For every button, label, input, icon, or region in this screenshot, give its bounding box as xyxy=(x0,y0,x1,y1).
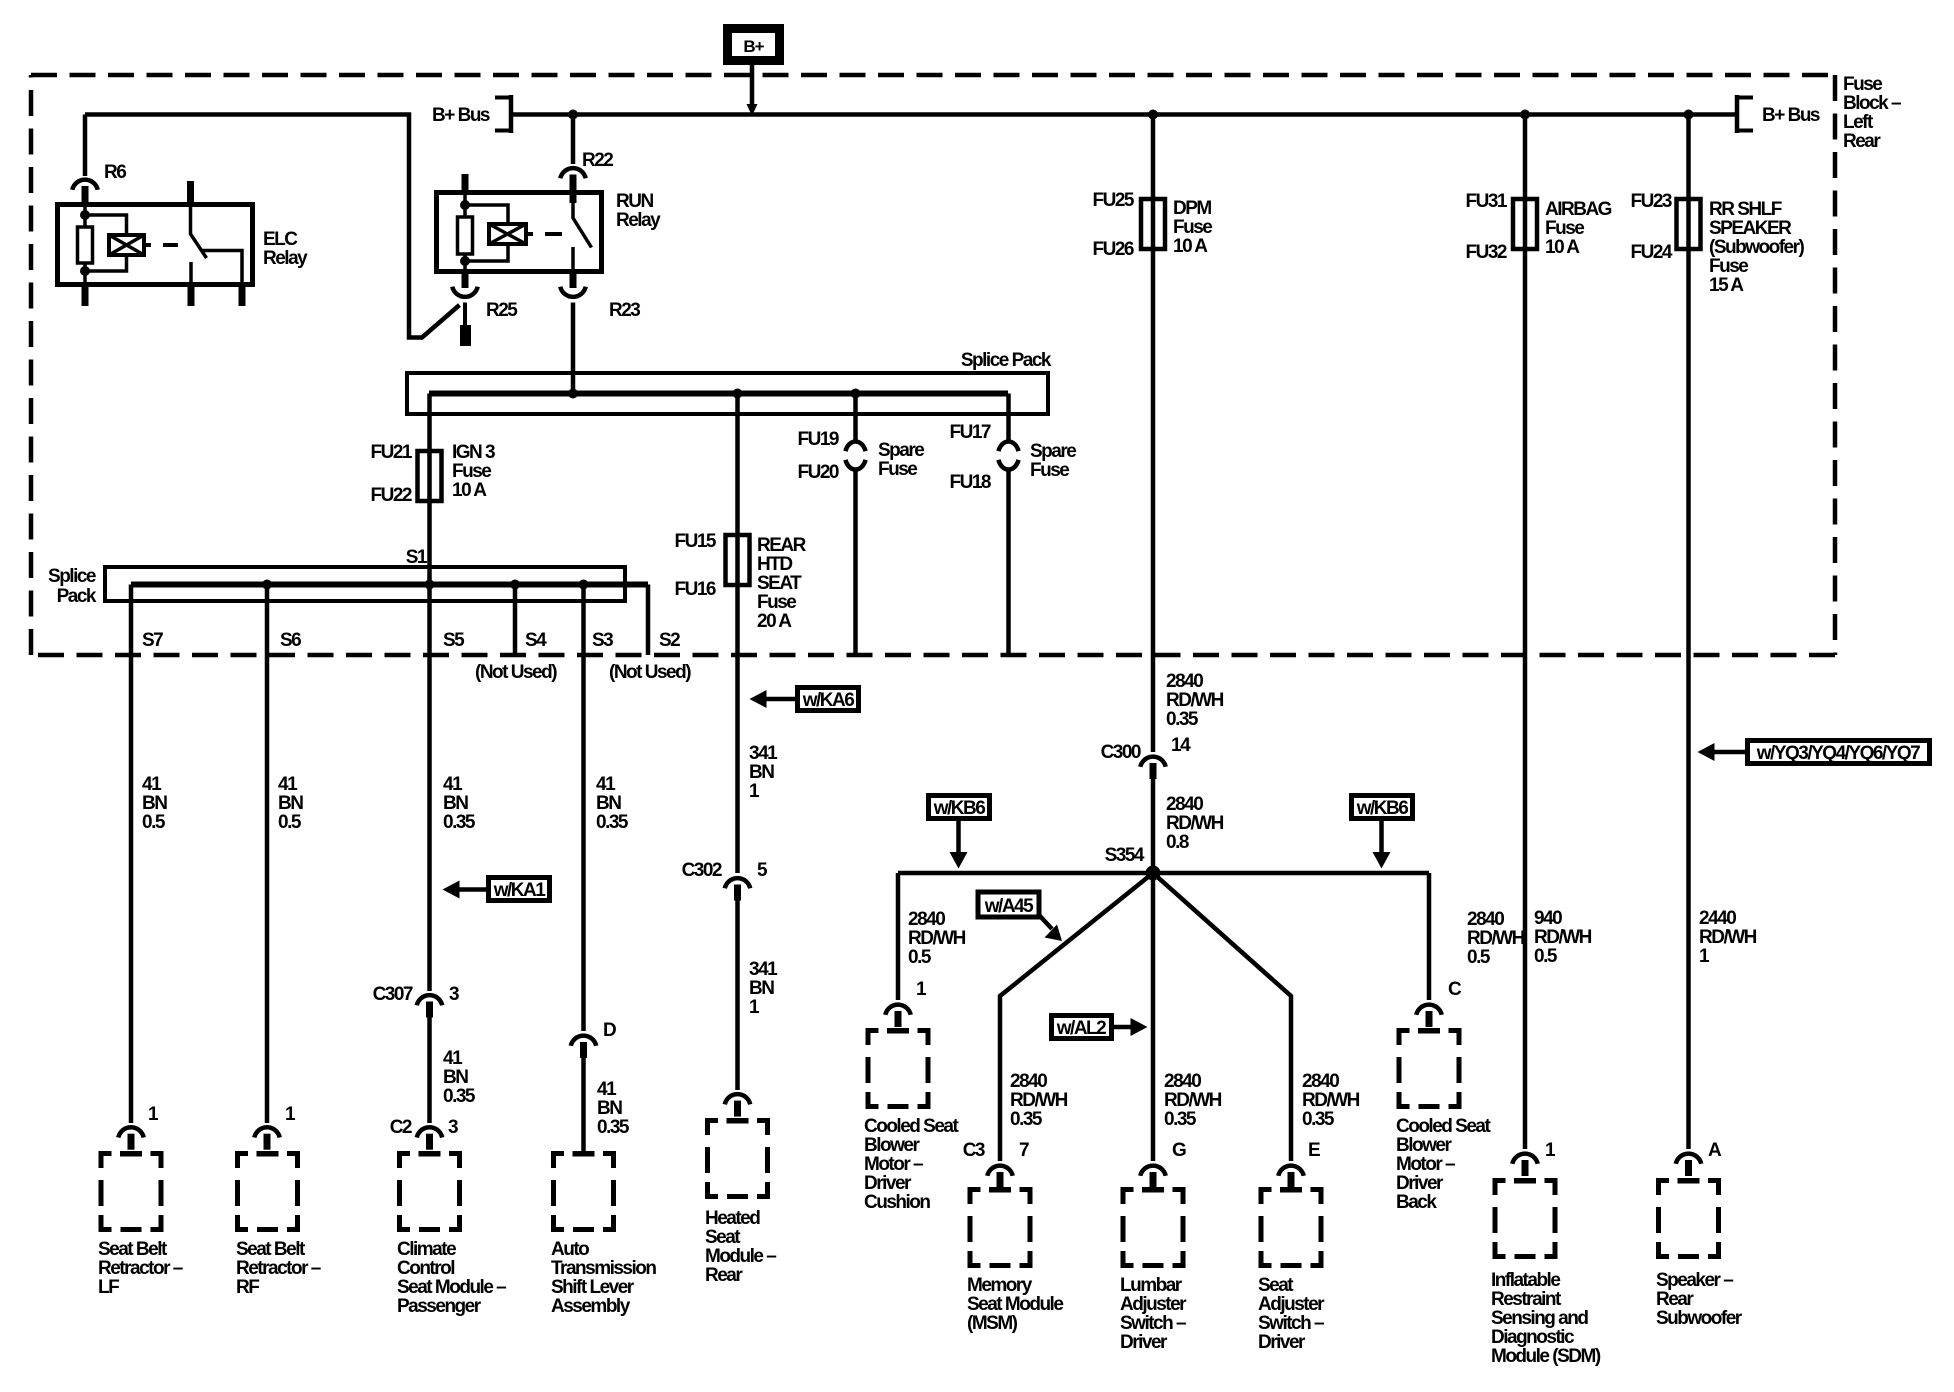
component box Auto Transmission Shift Lever Assembly xyxy=(554,1151,614,1230)
svg-text:(Not Used): (Not Used) xyxy=(475,662,557,683)
svg-text:Fuse: Fuse xyxy=(1843,74,1882,95)
svg-text:S3: S3 xyxy=(592,630,613,651)
svg-text:0.5: 0.5 xyxy=(142,812,166,833)
component box Speaker - Rear Subwoofer xyxy=(1659,1178,1719,1257)
connector R25 xyxy=(452,287,477,297)
svg-text:S6: S6 xyxy=(280,630,301,651)
svg-text:FU15: FU15 xyxy=(675,531,717,552)
component box Inflatable Restraint SDM xyxy=(1495,1178,1555,1257)
svg-text:Blower: Blower xyxy=(1396,1135,1452,1156)
wire S4 stub (Not Used) xyxy=(513,585,518,656)
svg-text:RD/WH: RD/WH xyxy=(1699,927,1757,948)
svg-text:R22: R22 xyxy=(582,150,613,171)
component box Heated Seat Module - Rear xyxy=(708,1118,768,1197)
svg-text:Climate: Climate xyxy=(397,1239,456,1260)
junction dot splice/FU19 xyxy=(851,389,861,399)
svg-text:w/KA6: w/KA6 xyxy=(802,690,855,711)
connector Heated Seat Module xyxy=(725,1094,750,1116)
svg-text:Rear: Rear xyxy=(1843,131,1881,152)
fuse block dashed border (Fuse Block - Left Rear) xyxy=(31,73,1835,78)
component box Lumbar Adjuster Switch - Driver xyxy=(1123,1187,1183,1266)
component box Seat Belt Retractor - RF xyxy=(238,1151,298,1230)
svg-text:Control: Control xyxy=(397,1258,454,1279)
junction dot RUN coil top xyxy=(460,200,470,210)
svg-text:0.35: 0.35 xyxy=(1302,1109,1335,1130)
RUN switch xyxy=(573,192,592,274)
svg-text:Left: Left xyxy=(1843,112,1874,133)
svg-text:BN: BN xyxy=(749,762,774,783)
svg-text:FU16: FU16 xyxy=(675,579,716,600)
svg-text:41: 41 xyxy=(597,1079,617,1100)
wire S7 drop 41 BN 0.5 xyxy=(129,585,134,1124)
svg-text:FU20: FU20 xyxy=(798,462,839,483)
svg-text:41: 41 xyxy=(142,774,162,795)
svg-text:Memory: Memory xyxy=(967,1275,1033,1296)
svg-text:Retractor –: Retractor – xyxy=(98,1258,183,1279)
connector C2 pin 3 xyxy=(417,1127,442,1149)
svg-text:BN: BN xyxy=(443,1067,468,1088)
harness arrow w/AL2 xyxy=(1052,1016,1112,1039)
svg-text:Shift Lever: Shift Lever xyxy=(551,1277,635,1298)
fuse FU23/FU24 RR SHLF SPEAKER Fuse 15 A xyxy=(1677,199,1701,249)
svg-text:10 A: 10 A xyxy=(1173,236,1208,257)
svg-text:FU19: FU19 xyxy=(798,429,839,450)
svg-text:Splice Pack: Splice Pack xyxy=(961,350,1052,371)
svg-text:LF: LF xyxy=(98,1277,119,1298)
svg-text:RD/WH: RD/WH xyxy=(1166,813,1224,834)
svg-text:2840: 2840 xyxy=(1164,1071,1201,1092)
svg-text:Fuse: Fuse xyxy=(1030,460,1069,481)
svg-text:0.35: 0.35 xyxy=(443,812,476,833)
svg-text:2440: 2440 xyxy=(1699,908,1736,929)
svg-text:0.35: 0.35 xyxy=(443,1086,476,1107)
wire C300 to S354 2840 RD/WH 0.8 xyxy=(1151,779,1156,873)
svg-text:20 A: 20 A xyxy=(757,611,792,632)
component box Memory Seat Module (MSM) xyxy=(970,1187,1030,1266)
junction dot bus/R22 xyxy=(568,110,578,120)
harness arrow w/KB6 left xyxy=(929,796,990,819)
svg-text:RF: RF xyxy=(236,1277,259,1298)
svg-text:Seat: Seat xyxy=(1258,1275,1294,1296)
connector A speaker xyxy=(1676,1154,1701,1176)
wire FU19 drop xyxy=(853,394,858,656)
svg-text:41: 41 xyxy=(596,774,616,795)
svg-text:Diagnostic: Diagnostic xyxy=(1491,1327,1575,1348)
relay ELC Relay xyxy=(58,205,253,285)
wire FU21 drop to splice S1 xyxy=(427,394,432,585)
connector R22 xyxy=(560,168,585,190)
svg-text:Seat Module –: Seat Module – xyxy=(397,1277,506,1298)
svg-text:Fuse: Fuse xyxy=(452,461,491,482)
svg-text:Heated: Heated xyxy=(705,1208,760,1229)
svg-text:2840: 2840 xyxy=(908,909,945,930)
svg-text:FU17: FU17 xyxy=(950,422,991,443)
svg-text:RUN: RUN xyxy=(616,191,653,212)
harness arrow w/KA6 xyxy=(798,688,859,711)
connector R6 xyxy=(72,180,97,202)
wire C302 to heated seat 341 BN 1 xyxy=(735,900,740,1090)
connector E xyxy=(1278,1166,1303,1188)
fuse FU21/FU22 IGN 3 Fuse 10 A xyxy=(418,451,442,501)
fuse FU15/FU16 REAR HTD SEAT Fuse 20 A xyxy=(726,535,750,585)
B+ terminal box xyxy=(728,29,780,61)
svg-text:3: 3 xyxy=(449,984,459,1005)
connector G xyxy=(1140,1166,1165,1188)
svg-text:FU25: FU25 xyxy=(1093,190,1135,211)
component box Seat Belt Retractor - LF xyxy=(101,1151,161,1230)
svg-text:FU21: FU21 xyxy=(371,442,413,463)
svg-text:BN: BN xyxy=(142,793,167,814)
svg-text:(Subwoofer): (Subwoofer) xyxy=(1709,237,1804,258)
svg-text:Splice: Splice xyxy=(48,566,96,587)
svg-text:Switch –: Switch – xyxy=(1258,1313,1324,1334)
svg-text:0.35: 0.35 xyxy=(596,812,629,833)
RUN pin top-right (R22) xyxy=(570,188,577,203)
svg-text:FU26: FU26 xyxy=(1093,239,1134,260)
svg-text:FU23: FU23 xyxy=(1631,191,1672,212)
svg-text:Passenger: Passenger xyxy=(397,1296,482,1317)
svg-text:BN: BN xyxy=(596,793,621,814)
component box Cooled Seat Blower Motor - Driver Back xyxy=(1399,1028,1459,1107)
svg-text:0.35: 0.35 xyxy=(1010,1109,1043,1130)
svg-text:341: 341 xyxy=(749,959,778,980)
svg-text:REAR: REAR xyxy=(757,535,807,556)
svg-text:Fuse: Fuse xyxy=(757,592,796,613)
svg-text:Relay: Relay xyxy=(263,248,308,269)
svg-text:Cooled Seat: Cooled Seat xyxy=(1396,1116,1491,1137)
svg-text:RR SHLF: RR SHLF xyxy=(1709,199,1782,220)
svg-text:S5: S5 xyxy=(443,630,465,651)
junction dot ELC coil bottom xyxy=(80,266,90,276)
svg-text:IGN 3: IGN 3 xyxy=(452,442,495,463)
ELC coil resistor xyxy=(78,227,93,263)
svg-text:Lumbar: Lumbar xyxy=(1120,1275,1183,1296)
svg-text:Cushion: Cushion xyxy=(864,1192,930,1213)
svg-text:w/YQ3/YQ4/YQ6/YQ7: w/YQ3/YQ4/YQ6/YQ7 xyxy=(1756,743,1920,764)
ELC pin bottom-center xyxy=(188,286,195,306)
svg-text:w/AL2: w/AL2 xyxy=(1056,1018,1106,1039)
svg-text:Back: Back xyxy=(1396,1192,1437,1213)
svg-text:Inflatable: Inflatable xyxy=(1491,1270,1560,1291)
splice S354 xyxy=(1146,866,1161,881)
svg-text:Switch –: Switch – xyxy=(1120,1313,1186,1334)
svg-text:Spare: Spare xyxy=(1030,441,1076,462)
junction dot bus/FU25 xyxy=(1148,110,1158,120)
wire S3 drop 41 BN 0.35 xyxy=(581,585,586,1032)
svg-text:10 A: 10 A xyxy=(452,480,487,501)
svg-text:Restraint: Restraint xyxy=(1491,1289,1562,1310)
RUN coil branch wire xyxy=(463,192,467,274)
wire S354 to G 2840 RD/WH 0.35 xyxy=(1151,873,1156,1161)
svg-text:SEAT: SEAT xyxy=(757,573,802,594)
svg-text:Module –: Module – xyxy=(705,1246,776,1267)
wire S354 diagonal to E 2840 RD/WH 0.35 xyxy=(1153,873,1291,1161)
svg-text:41: 41 xyxy=(278,774,298,795)
svg-text:HTD: HTD xyxy=(757,554,792,575)
svg-text:Rear: Rear xyxy=(1656,1289,1694,1310)
wire S354 diagonal to C3 xyxy=(1000,873,1153,1161)
ELC coil branch wire xyxy=(83,204,87,287)
RUN pin bottom-left (R25) xyxy=(462,274,469,288)
component box Cooled Seat Blower Motor - Driver Cushion xyxy=(868,1028,928,1107)
RUN pin bottom-right (R23) xyxy=(570,274,577,288)
svg-text:Seat Module: Seat Module xyxy=(967,1294,1063,1315)
svg-text:(Not Used): (Not Used) xyxy=(609,662,691,683)
svg-text:SPEAKER: SPEAKER xyxy=(1709,218,1792,239)
harness arrow w/KA1 xyxy=(489,878,550,901)
svg-text:S4: S4 xyxy=(525,630,547,651)
svg-text:C302: C302 xyxy=(682,860,722,881)
connector C307 pin 3 xyxy=(417,995,442,1017)
svg-text:C2: C2 xyxy=(390,1117,412,1138)
svg-text:Sensing and: Sensing and xyxy=(1491,1308,1588,1329)
junction dot ELC coil top xyxy=(80,210,90,220)
junction dot S4 xyxy=(510,580,520,590)
svg-text:Fuse: Fuse xyxy=(1173,217,1212,238)
svg-text:B+ Bus: B+ Bus xyxy=(1762,105,1820,126)
component box Climate Control Seat Module - Passenger xyxy=(400,1151,460,1230)
svg-text:0.5: 0.5 xyxy=(278,812,302,833)
ELC pin top-right xyxy=(187,181,194,203)
svg-text:E: E xyxy=(1308,1140,1320,1161)
svg-text:0.5: 0.5 xyxy=(1534,946,1558,967)
svg-text:Seat Belt: Seat Belt xyxy=(236,1239,306,1260)
svg-text:940: 940 xyxy=(1534,908,1562,929)
junction dot bus/FU23 xyxy=(1684,110,1694,120)
svg-text:2840: 2840 xyxy=(1166,794,1203,815)
ELC solenoid branch wire xyxy=(85,215,127,271)
svg-text:DPM: DPM xyxy=(1173,198,1211,219)
RUN solenoid branch wire xyxy=(465,205,508,261)
splice pack upper (bus bar) xyxy=(407,373,1048,414)
svg-text:Fuse: Fuse xyxy=(878,459,917,480)
svg-text:Pack: Pack xyxy=(57,586,97,607)
svg-text:14: 14 xyxy=(1171,735,1191,756)
svg-text:ELC: ELC xyxy=(263,229,298,250)
svg-text:B+ Bus: B+ Bus xyxy=(432,105,490,126)
wire ELC feed from R25 xyxy=(85,115,460,338)
ELC solenoid (crossed box) xyxy=(109,235,144,255)
svg-text:Motor –: Motor – xyxy=(1396,1154,1455,1175)
svg-text:0.35: 0.35 xyxy=(597,1117,630,1138)
svg-text:41: 41 xyxy=(443,774,463,795)
svg-text:3: 3 xyxy=(448,1117,458,1138)
RUN actuator dashed link xyxy=(526,232,562,236)
harness arrow w/YQ3/YQ4/YQ6/YQ7 xyxy=(1748,741,1930,764)
spare fuse FU19/FU20 xyxy=(846,441,866,469)
svg-text:BN: BN xyxy=(443,793,468,814)
fuse FU31/FU32 AIRBAG Fuse 10 A xyxy=(1513,199,1537,249)
svg-text:C3: C3 xyxy=(963,1140,985,1161)
harness arrow w/KB6 right xyxy=(1352,796,1413,819)
junction dot S5 xyxy=(425,580,435,590)
svg-text:RD/WH: RD/WH xyxy=(1010,1090,1068,1111)
svg-text:RD/WH: RD/WH xyxy=(1302,1090,1360,1111)
svg-text:AIRBAG: AIRBAG xyxy=(1545,199,1612,220)
svg-text:S1: S1 xyxy=(406,547,428,568)
svg-text:Assembly: Assembly xyxy=(551,1296,631,1317)
svg-text:BN: BN xyxy=(278,793,303,814)
svg-text:Fuse: Fuse xyxy=(1545,218,1584,239)
connector C300 pin 14 xyxy=(1140,757,1165,779)
svg-text:0.35: 0.35 xyxy=(1164,1109,1197,1130)
svg-text:0.8: 0.8 xyxy=(1166,832,1189,853)
svg-text:Fuse: Fuse xyxy=(1709,256,1748,277)
ELC pin top-left xyxy=(82,188,89,203)
splice pack lower (bus bar) xyxy=(105,567,625,601)
wire S354 horizontal xyxy=(898,871,1429,876)
wire D to box 41 BN 0.35 xyxy=(581,1058,586,1151)
svg-text:G: G xyxy=(1172,1140,1186,1161)
wire R23 to splice pack xyxy=(571,303,576,394)
connector pin 1 cushion blower xyxy=(885,1005,910,1027)
connector pin 1 Seat Belt Retractor LF xyxy=(118,1127,143,1149)
svg-text:BN: BN xyxy=(749,978,774,999)
svg-text:RD/WH: RD/WH xyxy=(1534,927,1592,948)
svg-text:2840: 2840 xyxy=(1467,909,1504,930)
svg-text:Driver: Driver xyxy=(1258,1332,1306,1353)
RUN coil resistor xyxy=(458,217,473,254)
svg-text:FU31: FU31 xyxy=(1466,191,1508,212)
svg-text:15 A: 15 A xyxy=(1709,275,1744,296)
svg-text:BN: BN xyxy=(597,1098,622,1119)
svg-text:C: C xyxy=(1448,979,1462,1000)
wire R6 drop xyxy=(83,115,88,177)
svg-text:Motor –: Motor – xyxy=(864,1154,923,1175)
svg-text:R23: R23 xyxy=(609,300,640,321)
connector C back blower xyxy=(1416,1005,1441,1027)
connector C3 pin 7 xyxy=(987,1166,1012,1188)
wire S354 to back blower 2840 RD/WH 0.5 xyxy=(1427,873,1432,1000)
wire FU17 drop xyxy=(1006,394,1011,656)
svg-text:B+: B+ xyxy=(743,37,764,56)
wire C307 to C2 41 BN 0.35 xyxy=(427,1017,432,1123)
svg-text:Rear: Rear xyxy=(705,1265,743,1286)
svg-text:Blower: Blower xyxy=(864,1135,920,1156)
wire S354 to cushion blower 2840 RD/WH 0.5 xyxy=(896,873,901,1000)
junction dot S6 xyxy=(262,580,272,590)
wire R22 drop xyxy=(571,115,576,165)
svg-text:FU22: FU22 xyxy=(371,485,412,506)
spare fuse FU17/FU18 xyxy=(999,441,1019,469)
junction dot S3 xyxy=(579,580,589,590)
connector C302 pin 5 xyxy=(725,878,750,900)
svg-text:2840: 2840 xyxy=(1302,1071,1339,1092)
svg-text:0.5: 0.5 xyxy=(1467,947,1491,968)
svg-text:FU32: FU32 xyxy=(1466,242,1507,263)
svg-text:Relay: Relay xyxy=(616,210,661,231)
svg-text:Driver: Driver xyxy=(864,1173,912,1194)
svg-text:(MSM): (MSM) xyxy=(967,1313,1018,1334)
svg-text:w/KB6: w/KB6 xyxy=(933,798,986,819)
svg-text:Seat: Seat xyxy=(705,1227,741,1248)
connector D xyxy=(571,1036,596,1058)
svg-text:RD/WH: RD/WH xyxy=(908,928,966,949)
svg-text:FU18: FU18 xyxy=(950,472,991,493)
wire FU15 drop xyxy=(735,394,740,874)
junction dot bus/FU31 xyxy=(1520,110,1530,120)
svg-text:Subwoofer: Subwoofer xyxy=(1656,1308,1743,1329)
fuse FU25/FU26 DPM Fuse 10 A xyxy=(1141,199,1165,249)
svg-text:Driver: Driver xyxy=(1396,1173,1444,1194)
svg-text:D: D xyxy=(603,1020,616,1041)
svg-text:FU24: FU24 xyxy=(1631,242,1673,263)
svg-text:Auto: Auto xyxy=(551,1239,589,1260)
svg-text:Cooled Seat: Cooled Seat xyxy=(864,1116,959,1137)
svg-text:R25: R25 xyxy=(486,300,518,321)
connector R23 xyxy=(560,287,585,297)
svg-text:R6: R6 xyxy=(104,162,126,183)
svg-text:C300: C300 xyxy=(1101,742,1141,763)
svg-text:7: 7 xyxy=(1019,1140,1029,1161)
svg-text:Speaker –: Speaker – xyxy=(1656,1270,1733,1291)
svg-text:2840: 2840 xyxy=(1166,671,1203,692)
svg-text:Transmission: Transmission xyxy=(551,1258,656,1279)
ELC actuator dashed link xyxy=(144,243,178,247)
ELC pin bottom-left xyxy=(82,286,89,306)
wire S5 drop 41 BN 0.35 xyxy=(427,585,432,992)
svg-text:0.35: 0.35 xyxy=(1166,709,1199,730)
svg-text:Seat Belt: Seat Belt xyxy=(98,1239,168,1260)
relay RUN Relay xyxy=(437,193,602,272)
wire AIRBAG feed 940 RD/WH 0.5 xyxy=(1523,115,1528,1150)
RUN solenoid (crossed box) xyxy=(489,224,526,244)
svg-text:RD/WH: RD/WH xyxy=(1164,1090,1222,1111)
svg-text:2840: 2840 xyxy=(1010,1071,1047,1092)
wire S2 stub (Not Used) xyxy=(646,585,651,656)
svg-text:Adjuster: Adjuster xyxy=(1120,1294,1187,1315)
svg-text:RD/WH: RD/WH xyxy=(1166,690,1224,711)
component box Seat Adjuster Switch - Driver xyxy=(1261,1187,1321,1266)
ELC switch xyxy=(191,204,207,287)
node B+ Bus bracket left xyxy=(509,95,514,133)
svg-text:Block –: Block – xyxy=(1843,93,1901,114)
connector pin 1 SDM xyxy=(1512,1154,1537,1176)
svg-text:S2: S2 xyxy=(659,630,680,651)
svg-text:Retractor –: Retractor – xyxy=(236,1258,321,1279)
ELC pin bottom-right xyxy=(239,286,246,306)
wire DPM feed xyxy=(1151,115,1156,753)
svg-text:w/KB6: w/KB6 xyxy=(1356,798,1409,819)
R25 terminal stub xyxy=(463,303,467,327)
junction dot splice/FU15 xyxy=(733,389,743,399)
svg-text:0.5: 0.5 xyxy=(908,947,932,968)
svg-text:Driver: Driver xyxy=(1120,1332,1168,1353)
svg-text:341: 341 xyxy=(749,743,778,764)
svg-text:w/A45: w/A45 xyxy=(984,896,1034,917)
svg-text:A: A xyxy=(1708,1140,1722,1161)
wire RR SHLF feed 2440 RD/WH 1 xyxy=(1686,115,1691,1150)
junction dot RUN coil bottom xyxy=(460,256,470,266)
svg-text:Adjuster: Adjuster xyxy=(1258,1294,1325,1315)
svg-text:RD/WH: RD/WH xyxy=(1467,928,1525,949)
wire main B+ bus xyxy=(511,112,1737,117)
svg-text:Module (SDM): Module (SDM) xyxy=(1491,1346,1601,1367)
svg-text:S354: S354 xyxy=(1105,845,1145,866)
svg-text:41: 41 xyxy=(443,1048,463,1069)
connector pin 1 Seat Belt Retractor RF xyxy=(254,1127,279,1149)
svg-text:w/KA1: w/KA1 xyxy=(493,880,547,901)
svg-text:S7: S7 xyxy=(142,630,163,651)
node B+ Bus bracket right xyxy=(1735,95,1740,133)
svg-text:Spare: Spare xyxy=(878,440,924,461)
RUN pin top-left xyxy=(462,174,469,192)
svg-text:C307: C307 xyxy=(373,984,413,1005)
harness arrow w/A45 xyxy=(978,892,1039,917)
junction dot splice/R23 xyxy=(568,389,578,399)
svg-text:10 A: 10 A xyxy=(1545,237,1580,258)
wire S6 drop 41 BN 0.5 xyxy=(265,585,270,1124)
